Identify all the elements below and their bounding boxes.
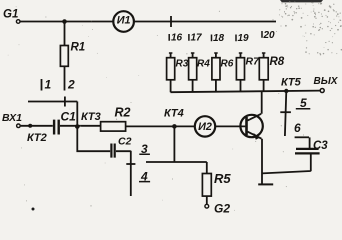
svg-text:R5: R5	[214, 171, 231, 186]
svg-text:19: 19	[238, 33, 250, 44]
svg-text:18: 18	[213, 33, 225, 44]
svg-text:4: 4	[140, 170, 148, 184]
svg-text:G1: G1	[3, 9, 18, 21]
svg-text:И2: И2	[198, 121, 212, 133]
svg-text:С1: С1	[61, 110, 77, 124]
svg-text:КТ5: КТ5	[281, 77, 302, 89]
svg-text:R8: R8	[270, 56, 285, 68]
svg-text:ВХ1: ВХ1	[2, 112, 22, 124]
svg-text:5: 5	[300, 96, 307, 110]
svg-text:ВЫХ: ВЫХ	[314, 76, 339, 87]
svg-text:КТ2: КТ2	[27, 132, 47, 144]
svg-text:1: 1	[45, 78, 52, 92]
svg-text:R7: R7	[246, 56, 261, 68]
svg-text:R2: R2	[115, 106, 131, 120]
svg-text:R4: R4	[197, 59, 210, 70]
svg-text:С3: С3	[313, 140, 328, 152]
svg-text:R6: R6	[221, 59, 234, 70]
svg-text:КТ4: КТ4	[164, 108, 184, 120]
svg-text:С2: С2	[118, 136, 132, 148]
svg-text:И1: И1	[117, 14, 131, 26]
svg-text:20: 20	[263, 30, 276, 41]
svg-text:R1: R1	[71, 42, 86, 54]
svg-text:16: 16	[171, 33, 183, 44]
svg-text:17: 17	[191, 33, 203, 44]
svg-text:R3: R3	[176, 59, 189, 70]
svg-text:2: 2	[67, 78, 75, 92]
svg-text:6: 6	[294, 121, 301, 135]
svg-text:G2: G2	[214, 202, 230, 216]
svg-text:КТ3: КТ3	[81, 111, 101, 123]
svg-text:3: 3	[141, 142, 148, 156]
